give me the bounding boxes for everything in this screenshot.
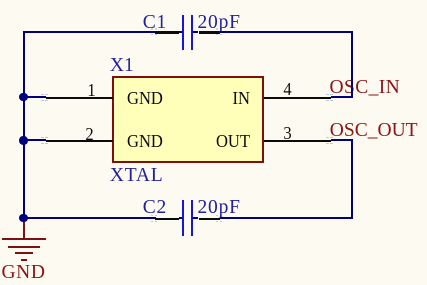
value 20pF (C1) — [198, 13, 241, 33]
wire: top horizontal, C1 to right riser — [220, 31, 353, 33]
designator C1 — [143, 13, 167, 33]
wire: bottom horizontal, C2 to right riser — [220, 217, 353, 219]
pin 3 number — [280, 124, 296, 142]
wire: right vertical riser from OSC_OUT — [351, 139, 353, 219]
crystal X1 body — [112, 76, 264, 163]
pin 3 name OUT — [216, 132, 250, 150]
wire: left vertical bus — [23, 31, 25, 220]
pin 4 wire — [264, 97, 331, 99]
wire: stub bus to pin 2 — [23, 139, 46, 141]
pin 1 number — [84, 81, 100, 99]
value 20pF (C2) — [198, 198, 241, 218]
pin 4 name IN — [232, 89, 250, 107]
wire: top horizontal, bus to C1 — [23, 31, 156, 33]
wire: pin 3 tip to riser — [331, 139, 353, 141]
pin 4 number — [280, 80, 296, 98]
comment XTAL — [110, 166, 164, 186]
ground symbol — [0, 0, 1, 1]
junction on bus at bottom wire — [19, 214, 27, 222]
pin 3 wire — [264, 140, 331, 142]
net label OSC_IN — [330, 78, 401, 98]
designator C2 — [143, 198, 167, 218]
pin endpoint hotspot marks — [0, 0, 1, 1]
wire: bottom horizontal, bus to C2 — [23, 217, 156, 219]
wire: pin 4 tip to riser — [331, 96, 353, 98]
pin 2 name GND — [127, 132, 163, 150]
wire: right vertical riser to OSC_IN — [351, 31, 353, 99]
designator X1 — [110, 56, 134, 76]
wire: stub bus to pin 1 — [23, 96, 46, 98]
net label OSC_OUT — [330, 121, 418, 141]
pin 1 wire — [46, 97, 113, 99]
capacitor C1 — [0, 0, 1, 1]
capacitor C2 — [0, 0, 1, 1]
junction on bus at pin 1 — [19, 93, 27, 101]
power net label GND — [2, 263, 46, 283]
pin 2 wire — [46, 140, 113, 142]
junction on bus at pin 2 — [19, 136, 27, 144]
pin 2 number — [82, 125, 98, 143]
pin 1 name GND — [127, 89, 163, 107]
